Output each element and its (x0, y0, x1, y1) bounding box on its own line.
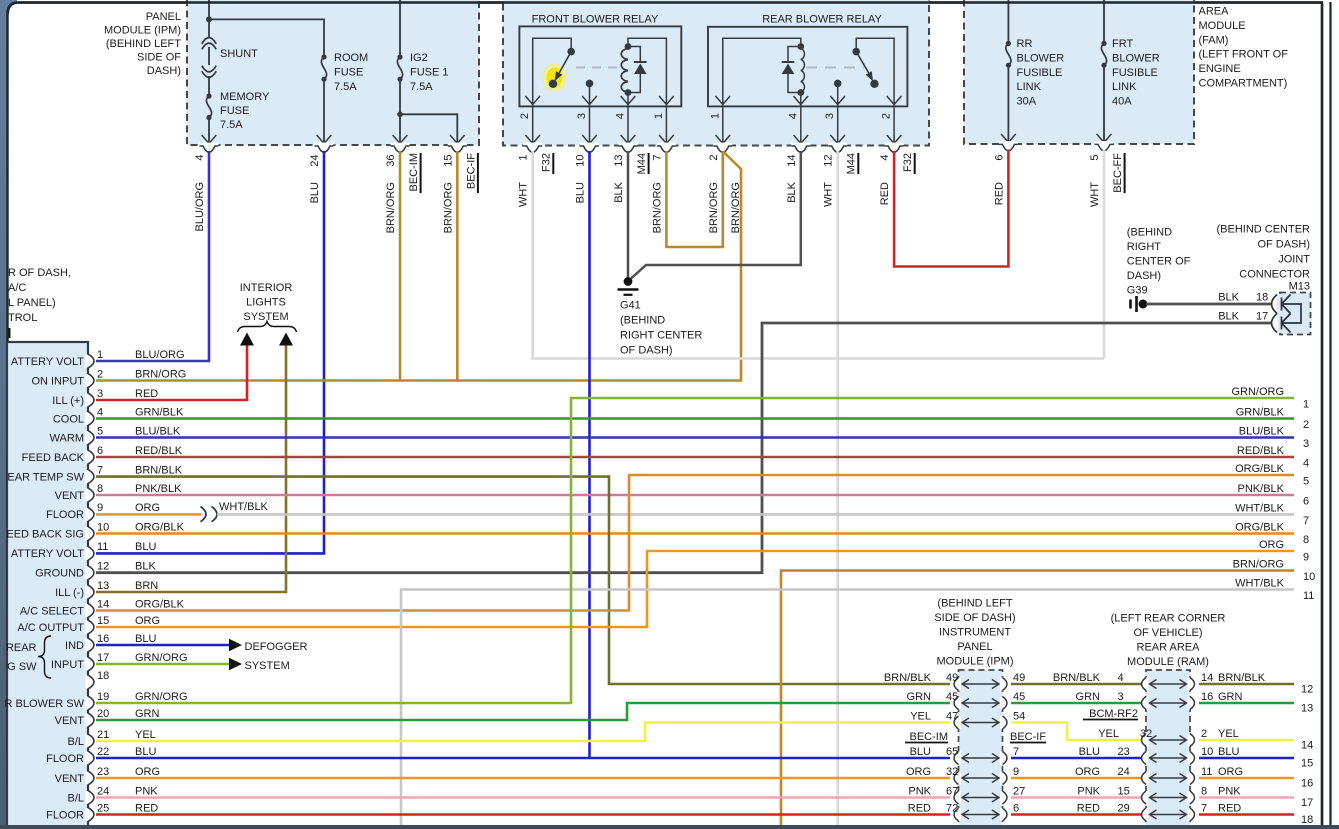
svg-text:13: 13 (97, 580, 109, 592)
svg-text:4: 4 (1303, 458, 1309, 470)
svg-text:8: 8 (1303, 534, 1309, 546)
svg-text:BRN/ORG: BRN/ORG (135, 368, 186, 380)
front relay diode (628, 47, 640, 63)
svg-text:FLOOR: FLOOR (46, 753, 84, 765)
front relay fixed contact (pin 3) (589, 87, 591, 106)
svg-text:4: 4 (879, 155, 891, 161)
wire: jumper from shunt node to ROOM fuse (209, 19, 324, 57)
svg-text:20: 20 (97, 708, 109, 720)
svg-text:FLOOR: FLOOR (46, 809, 84, 821)
svg-text:6: 6 (993, 155, 1005, 161)
svg-text:GRN/BLK: GRN/BLK (135, 406, 184, 418)
wire BLU/ORG: IPM pin4 to A/C pin1 (96, 151, 209, 361)
svg-text:WHT: WHT (1089, 182, 1101, 207)
svg-text:WHT/BLK: WHT/BLK (1235, 503, 1285, 515)
connector cavity at x=400 (391, 143, 410, 148)
svg-text:L PANEL): L PANEL) (8, 297, 56, 309)
YEL row through IPM (47/54) and RAM (32/2) with BCM-RF2 (956, 716, 961, 729)
svg-text:GRN/ORG: GRN/ORG (1231, 386, 1284, 398)
junction node IG2 branch (397, 112, 403, 118)
svg-text:7.5A: 7.5A (334, 81, 357, 93)
svg-text:27: 27 (1013, 785, 1025, 797)
svg-text:15: 15 (97, 615, 109, 627)
svg-text:RED: RED (1077, 802, 1100, 814)
A/C control pin 12 GROUND (85, 566, 91, 579)
IPM pins 32/9 and RAM pins 24/11 ORG row (956, 772, 961, 785)
svg-text:30A: 30A (1017, 96, 1037, 108)
svg-text:ORG/BLK: ORG/BLK (1235, 522, 1285, 534)
svg-text:BLU: BLU (910, 746, 931, 758)
svg-text:ENGINE: ENGINE (1199, 63, 1241, 75)
wire BRN/ORG: relay pins 7-2 jumper (666, 151, 722, 247)
svg-text:RED: RED (135, 802, 158, 814)
A/C control pin 7 EAR TEMP SW (85, 470, 91, 483)
svg-text:FLOOR: FLOOR (46, 509, 84, 521)
connector cavity at x=457.3 (448, 143, 467, 148)
svg-text:11: 11 (1201, 766, 1212, 778)
connector cavity at x=894.1 (885, 143, 904, 148)
svg-text:65: 65 (946, 746, 958, 758)
svg-text:MODULE (RAM): MODULE (RAM) (1127, 656, 1209, 668)
svg-text:72: 72 (946, 802, 958, 814)
wire: memory fuse to pin 4 (208, 118, 210, 145)
svg-text:ORG: ORG (1218, 766, 1243, 778)
front area module (FAM) box (top right, dashed) (964, 0, 1194, 144)
A/C control pin 20 VENT (85, 714, 91, 727)
RR blower fusible link 30A (1007, 0, 1009, 43)
M13 pin sockets (1278, 294, 1283, 314)
svg-text:JOINT: JOINT (1278, 254, 1310, 266)
svg-text:54: 54 (1013, 710, 1025, 722)
svg-text:GRN: GRN (1218, 691, 1243, 703)
svg-text:F32: F32 (541, 153, 553, 172)
A/C control pin 15 A/C OUTPUT (85, 621, 91, 634)
svg-text:24: 24 (309, 155, 321, 167)
svg-text:4: 4 (97, 406, 103, 418)
svg-text:RED/BLK: RED/BLK (135, 445, 183, 457)
svg-text:F32: F32 (902, 153, 914, 172)
svg-text:13: 13 (613, 155, 625, 167)
svg-text:MODULE (IPM): MODULE (IPM) (104, 25, 181, 37)
svg-text:21: 21 (97, 729, 109, 741)
blower relay module box (top middle, dashed) (503, 0, 929, 146)
wire BLK: front relay pin13 to ground G41 (627, 151, 630, 278)
IPM pins 49/49 and RAM pins 4/14 BRN/BLK row (956, 678, 961, 691)
svg-text:22: 22 (97, 746, 109, 758)
svg-text:RIGHT CENTER: RIGHT CENTER (620, 330, 702, 342)
svg-text:RED: RED (1218, 802, 1241, 814)
svg-text:12: 12 (97, 561, 109, 573)
svg-text:BEC-IF: BEC-IF (465, 153, 477, 189)
svg-text:ORG: ORG (1075, 766, 1100, 778)
svg-text:BRN/ORG: BRN/ORG (651, 182, 663, 233)
svg-text:1: 1 (1303, 399, 1309, 411)
svg-text:5: 5 (1303, 476, 1309, 488)
IG2 fuse 1 7.5A (399, 0, 401, 57)
svg-text:BLU: BLU (1218, 746, 1239, 758)
svg-text:VENT: VENT (55, 490, 85, 502)
svg-text:67: 67 (946, 785, 958, 797)
wire GRN/ORG: A/C pin19 RR BLOWER SW up to right row1 (96, 398, 1294, 703)
svg-text:COOL: COOL (53, 413, 84, 425)
A/C control pin 24 B/L (85, 791, 91, 804)
A/C control pin 22 FLOOR (85, 752, 91, 765)
svg-text:B/L: B/L (67, 792, 84, 804)
svg-text:SYSTEM: SYSTEM (243, 311, 288, 323)
svg-text:M13: M13 (1289, 281, 1310, 293)
page top border overlay (8, 3, 1322, 14)
wire YEL: A/C pin21 B/L to IPM 47 / BCM-RF2 / RAM / right row14 (96, 723, 950, 742)
svg-text:FUSE: FUSE (220, 105, 249, 117)
M13 joint connector box (dashed) (1280, 293, 1311, 335)
svg-text:INSTRUMENT: INSTRUMENT (939, 627, 1011, 639)
svg-text:7.5A: 7.5A (410, 81, 433, 93)
memory fuse 7.5A (208, 76, 210, 96)
svg-text:BCM-RF2: BCM-RF2 (1089, 708, 1138, 720)
A/C control pin 5 WARM (85, 431, 91, 444)
svg-text:OF DASH): OF DASH) (1257, 239, 1310, 251)
svg-text:29: 29 (1118, 802, 1130, 814)
svg-text:RED: RED (135, 388, 158, 400)
svg-text:BRN/BLK: BRN/BLK (884, 672, 932, 684)
svg-text:14: 14 (1301, 740, 1313, 752)
svg-text:DEFOGGER: DEFOGGER (245, 641, 308, 653)
svg-text:REAR BLOWER RELAY: REAR BLOWER RELAY (762, 14, 882, 26)
svg-text:49: 49 (1013, 672, 1025, 684)
svg-text:EAR TEMP SW: EAR TEMP SW (7, 471, 84, 483)
interior lights system arrows (240, 333, 254, 346)
connector cavity at x=532.7 (523, 143, 542, 148)
svg-text:6: 6 (1013, 802, 1019, 814)
svg-text:7: 7 (1303, 515, 1309, 527)
wire WHT: rear relay pin12 down off-page (836, 151, 839, 825)
svg-text:(FAM): (FAM) (1199, 34, 1229, 46)
svg-text:YEL: YEL (135, 729, 156, 741)
wire BLU: A/C pin16 IND to defogger (96, 644, 229, 647)
wire BRN/ORG: A/C pin2 ON INPUT row (96, 152, 741, 381)
svg-text:BRN/BLK: BRN/BLK (1218, 672, 1266, 684)
svg-text:BLU: BLU (309, 182, 321, 203)
connector cavity at x=1008.4 (999, 141, 1018, 146)
A/C control pin 1 ATTERY VOLT (85, 355, 91, 368)
relay pin 1 stub at x=722.8 (722, 106, 724, 144)
svg-text:ORG: ORG (135, 615, 160, 627)
front relay coil (pin 4) (627, 93, 629, 106)
defogger system arrows (229, 639, 242, 651)
svg-text:4: 4 (194, 155, 206, 161)
svg-text:BEC-FF: BEC-FF (1112, 153, 1124, 193)
svg-text:BLK: BLK (1218, 311, 1239, 323)
svg-text:ATTERY VOLT: ATTERY VOLT (11, 548, 84, 560)
svg-text:GROUND: GROUND (35, 568, 84, 580)
svg-text:ROOM: ROOM (334, 52, 368, 64)
connector cavity at x=800.8 (791, 143, 810, 148)
svg-text:3: 3 (824, 113, 836, 119)
svg-text:11: 11 (97, 541, 108, 553)
svg-text:ORG: ORG (906, 766, 931, 778)
svg-text:4: 4 (787, 113, 799, 119)
A/C control pin 2 ON INPUT (85, 374, 91, 387)
rear relay actuator dashed link (806, 67, 864, 69)
svg-text:BEC-IM: BEC-IM (910, 731, 949, 743)
svg-text:GRN: GRN (1076, 691, 1101, 703)
relay pin 4 stub at x=628 (627, 106, 629, 144)
rear relay coil supply (pin 1) (723, 38, 801, 106)
bottom page edge bar (0, 825, 1339, 829)
rear relay fixed contact (pin 3) (837, 87, 839, 106)
A/C control pin 16 IND (85, 639, 91, 652)
svg-text:RED: RED (993, 182, 1005, 205)
svg-text:BLK: BLK (135, 561, 156, 573)
svg-text:GRN/BLK: GRN/BLK (1236, 407, 1285, 419)
svg-text:9: 9 (1013, 766, 1019, 778)
front relay switch (pin 2 to movable blade) (533, 38, 572, 106)
svg-text:23: 23 (97, 766, 109, 778)
A/C control pin 19 R BLOWER SW (85, 697, 91, 710)
wire ORG/BLK: A/C pin14 A/C SELECT up to right row5 (96, 475, 1294, 611)
svg-text:14: 14 (786, 155, 798, 167)
A/C control module box (left, solid) (7, 342, 88, 829)
svg-text:49: 49 (946, 672, 958, 684)
svg-text:17: 17 (97, 652, 109, 664)
svg-text:(BEHIND CENTER: (BEHIND CENTER (1216, 224, 1310, 236)
svg-text:12: 12 (823, 155, 835, 167)
svg-text:BLU: BLU (135, 541, 156, 553)
wire WHT/BLK: right row11 down off-page (401, 590, 1294, 826)
svg-text:36: 36 (385, 155, 397, 167)
svg-text:ON INPUT: ON INPUT (31, 375, 84, 387)
svg-text:10: 10 (97, 521, 109, 533)
svg-text:WARM: WARM (50, 432, 84, 444)
svg-text:BLU: BLU (135, 633, 156, 645)
svg-text:RED: RED (879, 182, 891, 205)
M13 internal jumper (1282, 304, 1301, 323)
svg-text:DASH): DASH) (147, 65, 181, 77)
svg-text:47: 47 (946, 710, 958, 722)
svg-text:AREA: AREA (1199, 6, 1230, 18)
svg-text:LINK: LINK (1017, 81, 1042, 93)
wire BRN/BLK: A/C pin7 REAR TEMP SW to IPM 49 / RAM / right row12 (96, 477, 950, 684)
A/C control pin 9 FLOOR (85, 508, 91, 521)
svg-text:32: 32 (1140, 728, 1152, 740)
svg-text:PNK: PNK (908, 785, 931, 797)
connector cavity at x=1104 (1095, 141, 1114, 146)
svg-text:YEL: YEL (1218, 728, 1239, 740)
front blower relay box (519, 26, 681, 106)
front relay actuator dashed link (576, 67, 621, 69)
svg-text:3: 3 (1303, 438, 1309, 450)
svg-text:DASH): DASH) (1127, 270, 1161, 282)
wire BLU: front relay pin3 to floor row (588, 151, 591, 758)
wire BLK: G39 to M13 pin 18 (1146, 303, 1272, 306)
svg-text:PNK: PNK (1077, 785, 1100, 797)
rear relay diode (788, 47, 801, 63)
svg-text:18: 18 (1256, 292, 1268, 304)
svg-text:11: 11 (1303, 590, 1314, 602)
svg-text:BRN/BLK: BRN/BLK (1053, 672, 1101, 684)
svg-text:(BEHIND LEFT: (BEHIND LEFT (937, 598, 1012, 610)
svg-text:16: 16 (1201, 691, 1213, 703)
wire BLK: ground row 12 up to joint connector M13 pin 17 (96, 323, 1272, 573)
wire BRN/ORG: IPM pin15 to row2 (456, 151, 459, 380)
svg-text:14: 14 (1201, 672, 1213, 684)
svg-text:PNK: PNK (135, 785, 158, 797)
svg-text:9: 9 (97, 502, 103, 514)
wire BLU: A/C pin22 FLOOR to IPM 65 / RAM / right row15 (96, 757, 950, 760)
svg-text:REAR: REAR (6, 642, 37, 654)
svg-text:A/C OUTPUT: A/C OUTPUT (17, 622, 84, 634)
svg-text:OF DASH): OF DASH) (620, 345, 673, 357)
svg-text:(BEHIND LEFT: (BEHIND LEFT (106, 38, 181, 50)
svg-text:18: 18 (1301, 814, 1313, 826)
instrument panel module (IPM) fuse box (top left, dashed) (187, 0, 479, 145)
svg-text:3: 3 (97, 388, 103, 400)
svg-text:INPUT: INPUT (51, 659, 84, 671)
wire: room fuse to pin 24 (323, 79, 325, 144)
svg-text:ORG: ORG (135, 502, 160, 514)
svg-text:1: 1 (709, 113, 721, 119)
svg-text:15: 15 (442, 155, 454, 167)
svg-text:FRONT BLOWER RELAY: FRONT BLOWER RELAY (532, 14, 659, 26)
svg-text:BLK: BLK (786, 181, 798, 202)
svg-text:ATTERY VOLT: ATTERY VOLT (11, 356, 84, 368)
svg-text:R OF DASH,: R OF DASH, (8, 267, 71, 279)
wire RED: rear relay pin4(F32) to RR fusible link (894, 150, 1008, 267)
svg-text:17: 17 (1256, 311, 1268, 323)
svg-text:2: 2 (519, 113, 531, 119)
wire WHT: front relay pin2 feed (533, 151, 1104, 359)
svg-text:GRN: GRN (135, 708, 160, 720)
svg-text:G39: G39 (1127, 285, 1148, 297)
A/C control pin 6 FEED BACK (85, 451, 91, 464)
svg-text:2: 2 (97, 368, 103, 380)
relay pin 1 stub at x=666.4 (665, 106, 667, 144)
IPM pins 45/45 and RAM pins 3/16 GRN row (956, 697, 961, 710)
svg-text:(BEHIND: (BEHIND (1127, 227, 1172, 239)
svg-text:GRN/ORG: GRN/ORG (135, 652, 188, 664)
relay pin 4 stub at x=800.8 (800, 106, 802, 144)
svg-text:ILL (-): ILL (-) (55, 587, 84, 599)
svg-text:BLOWER: BLOWER (1017, 52, 1065, 64)
svg-text:R BLOWER SW: R BLOWER SW (5, 698, 85, 710)
svg-text:GRN: GRN (907, 691, 932, 703)
svg-text:BLU/ORG: BLU/ORG (135, 349, 185, 361)
wire ORG/BLK: A/C pin10 to right edge row8 (96, 532, 1294, 535)
svg-text:WHT/BLK: WHT/BLK (219, 501, 269, 513)
wire PNK/BLK: A/C pin8 VENT to right edge row6 (96, 494, 1294, 497)
svg-text:2: 2 (708, 155, 720, 161)
wire BLU: IPM pin24 to A/C pin11 (96, 151, 324, 553)
front relay switch highlight (yellow) (543, 64, 567, 92)
svg-text:24: 24 (97, 785, 109, 797)
interior lights brace (238, 322, 297, 333)
svg-text:10: 10 (575, 155, 587, 167)
wire RED: A/C pin3 ILL(+) to interior lights (96, 345, 247, 400)
svg-text:FRT: FRT (1112, 38, 1133, 50)
svg-text:BLU/ORG: BLU/ORG (194, 182, 206, 232)
relay pin 2 stub at x=894.1 (893, 106, 895, 144)
svg-text:WHT/BLK: WHT/BLK (1235, 578, 1285, 590)
svg-text:6: 6 (97, 445, 103, 457)
relay pin 2 stub at x=532.7 (532, 106, 534, 144)
junction node at top of shunt (206, 16, 212, 22)
room fuse 7.5A (321, 54, 326, 59)
A/C control pin 10 EED BACK SIG (85, 527, 91, 540)
svg-text:M44: M44 (636, 153, 648, 174)
connector cavity at x=589.5 (580, 143, 599, 148)
svg-text:PANEL: PANEL (957, 641, 992, 653)
svg-text:RED: RED (908, 802, 931, 814)
svg-text:BRN/ORG: BRN/ORG (1233, 559, 1284, 571)
svg-text:BRN: BRN (135, 580, 158, 592)
svg-text:VENT: VENT (55, 715, 85, 727)
A/C control pin 4 COOL (85, 412, 91, 425)
svg-text:(LEFT FRONT OF: (LEFT FRONT OF (1199, 49, 1289, 61)
A/C control pin 23 VENT (85, 772, 91, 785)
svg-text:A/C: A/C (8, 282, 26, 294)
wire BLU/BLK: A/C pin5 WARM to right edge row3 (96, 436, 1294, 439)
wire GRN/BLK: A/C pin4 COOL to right edge row2 (96, 417, 1294, 420)
svg-text:7.5A: 7.5A (220, 119, 243, 131)
svg-text:8: 8 (1201, 785, 1207, 797)
svg-text:24: 24 (1118, 766, 1130, 778)
svg-text:EED BACK SIG: EED BACK SIG (6, 528, 84, 540)
wire ORG: A/C pin23 VENT to IPM 32 / RAM / right row16 (96, 777, 950, 780)
wire BRN: A/C pin13 ILL(-) to interior lights (96, 345, 286, 592)
svg-text:LINK: LINK (1112, 81, 1137, 93)
svg-text:40A: 40A (1112, 96, 1132, 108)
wire ORG + inline connector + WHT/BLK: A/C pin9 FLOOR to right edge row7 (96, 513, 201, 516)
wire BRN/ORG: IPM pin36 to row2 (399, 151, 402, 380)
svg-text:SYSTEM: SYSTEM (245, 660, 290, 672)
svg-text:OF VEHICLE): OF VEHICLE) (1133, 627, 1202, 639)
svg-text:VENT: VENT (55, 773, 85, 785)
A/C control pin 14 A/C SELECT (85, 604, 91, 617)
svg-text:45: 45 (1013, 691, 1025, 703)
A/C control pin 21 B/L (85, 735, 91, 748)
svg-text:32: 32 (946, 766, 958, 778)
svg-text:1: 1 (518, 155, 530, 161)
svg-text:FUSIBLE: FUSIBLE (1017, 67, 1063, 79)
svg-text:5: 5 (1089, 155, 1101, 161)
relay pin 3 stub at x=589.5 (589, 106, 591, 144)
A/C control pin 3 ILL (+) (85, 394, 91, 407)
svg-text:18: 18 (97, 670, 109, 682)
svg-text:10: 10 (1303, 571, 1315, 583)
svg-text:6: 6 (1303, 496, 1309, 508)
RAM rear area module connector box (dashed) (1146, 670, 1190, 829)
svg-text:5: 5 (97, 425, 103, 437)
svg-text:PANEL: PANEL (146, 11, 181, 23)
svg-text:ILL (+): ILL (+) (52, 395, 84, 407)
svg-text:17: 17 (1301, 797, 1313, 809)
svg-text:(BEHIND: (BEHIND (620, 315, 665, 327)
IPM pins 67/27 and RAM pins 15/8 PNK row (956, 791, 961, 804)
svg-text:LIGHTS: LIGHTS (246, 296, 286, 308)
svg-text:16: 16 (97, 633, 109, 645)
svg-text:10: 10 (1201, 746, 1213, 758)
svg-text:1: 1 (97, 349, 103, 361)
A/C control pin 8 VENT (85, 489, 91, 502)
svg-text:MODULE (IPM): MODULE (IPM) (937, 656, 1014, 668)
svg-text:GRN/ORG: GRN/ORG (135, 691, 188, 703)
svg-text:PNK: PNK (1218, 785, 1241, 797)
svg-text:4: 4 (1118, 672, 1124, 684)
svg-text:FUSIBLE: FUSIBLE (1112, 67, 1158, 79)
svg-text:RED/BLK: RED/BLK (1237, 445, 1285, 457)
svg-text:BLU: BLU (1079, 746, 1100, 758)
svg-text:REAR AREA: REAR AREA (1137, 642, 1201, 654)
